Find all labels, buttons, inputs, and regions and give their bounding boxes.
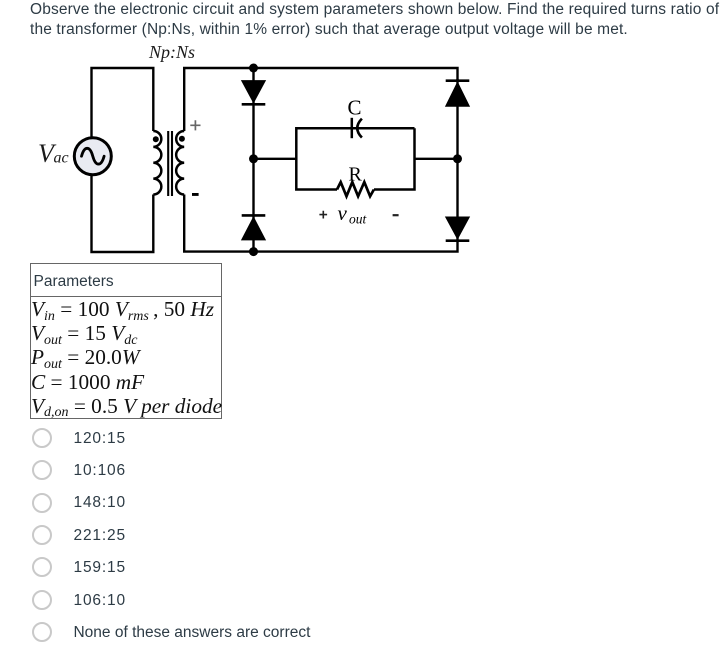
svg-text:R: R xyxy=(349,163,363,185)
diode D4 right-bottom xyxy=(446,217,470,239)
transformer T1 secondary winding xyxy=(176,131,184,195)
RC load box wires xyxy=(296,128,414,189)
parameters table xyxy=(30,263,222,419)
svg-text:ac: ac xyxy=(54,150,69,167)
svg-text:v: v xyxy=(338,201,348,225)
source Vac xyxy=(74,138,111,175)
diode D2 left-bottom xyxy=(242,217,266,240)
resistor R zigzag xyxy=(337,182,374,196)
label + vout xyxy=(319,211,327,219)
wire secondary top xyxy=(184,68,457,131)
transformer dot secondary xyxy=(179,136,185,142)
capacitor C plates xyxy=(351,118,354,138)
transformer T1 core xyxy=(168,131,172,196)
polarity - secondary xyxy=(192,193,199,196)
svg-text:out: out xyxy=(349,212,368,227)
transformer T1 primary winding xyxy=(153,131,161,195)
polarity + secondary xyxy=(190,120,200,130)
wire primary loop xyxy=(92,68,154,252)
junction dot mid-left xyxy=(249,154,258,163)
junction dot top-left xyxy=(249,64,258,73)
transformer dot primary xyxy=(153,136,159,142)
wire mid left xyxy=(254,158,297,160)
junction dot bottom-left xyxy=(249,247,258,256)
svg-text:C: C xyxy=(348,96,362,120)
wire bridge left leg xyxy=(252,68,254,252)
wire secondary bottom xyxy=(184,195,457,252)
wire mid right xyxy=(415,158,458,160)
junction dot mid-right xyxy=(453,154,462,163)
wire bridge right leg xyxy=(456,79,458,241)
diode D3 right-top xyxy=(446,82,470,106)
diode D1 left-top xyxy=(242,81,266,103)
svg-text:Np:Ns: Np:Ns xyxy=(148,42,195,62)
